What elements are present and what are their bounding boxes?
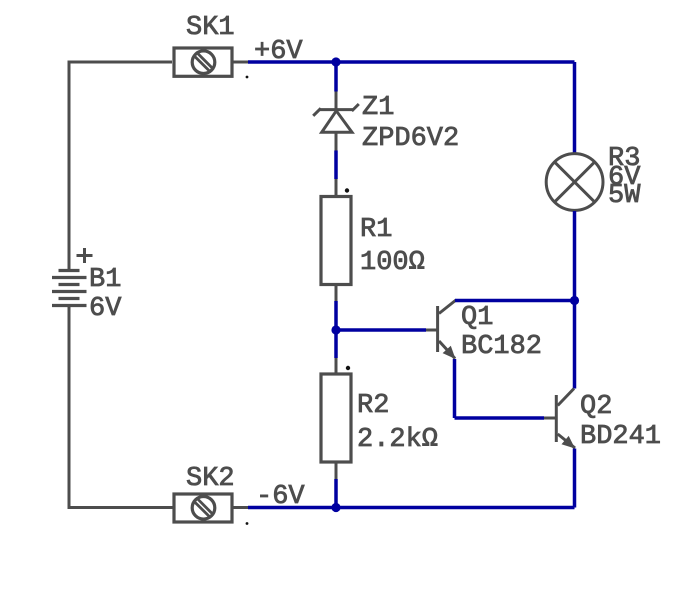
svg-text:-6V: -6V [256,482,305,512]
svg-text:SK2: SK2 [186,464,235,494]
svg-text:100Ω: 100Ω [360,248,425,278]
wire Q1 base (blue) [336,328,426,332]
wire zener to R1 (blue) [334,151,338,180]
svg-text:BC182: BC182 [461,332,542,362]
wire right rail top (blue) [573,62,577,153]
wire top rail (blue) [248,60,575,64]
wire bottom rail (blue) [248,506,575,510]
node junction center [331,325,340,334]
pin Q1 base stub (gray) [426,329,437,332]
svg-text:Q1: Q1 [461,303,493,333]
svg-text:ZPD6V2: ZPD6V2 [362,124,459,154]
svg-text:6V: 6V [89,294,122,324]
svg-text:BD241: BD241 [580,422,661,452]
wire Q1 emitter to Q2 base (blue) [455,416,545,420]
node junction right rail [570,296,579,305]
pin dot R1 [345,188,349,192]
pin R1 top (gray) [335,179,338,196]
wire left rail from SK1 to battery top (gray) [69,62,172,271]
pin R1 bottom (gray) [335,285,338,302]
svg-text:Q2: Q2 [580,392,612,422]
pin dot R2 [346,366,350,370]
pin dot SK2 [246,522,249,525]
arrow Q1 emitter [443,346,456,359]
wire Q2 emitter down (blue) [573,449,577,508]
wire center from top rail to zener (blue) [334,62,338,92]
pin stub SK1 right (gray) [233,61,248,64]
svg-text:B1: B1 [89,265,121,295]
pin zener top (gray) [335,92,338,110]
pin zener bottom (gray) [335,132,338,150]
pin R2 bottom (gray) [335,462,338,479]
transistor Q1 [438,300,456,359]
terminal SK2 [174,494,232,522]
arrow Q2 emitter [562,436,576,449]
lamp R3 [546,154,603,211]
zener diode Z1 [313,104,359,132]
terminal SK1 [174,48,232,76]
battery B1 [52,271,87,306]
svg-text:Z1: Z1 [362,93,394,123]
resistor R2 [321,374,351,462]
wire junction to Q2 collector (blue) [573,301,577,389]
wire Q1 emitter down (blue) [453,359,457,418]
node junction top (+6V net) [331,57,340,66]
svg-text:2.2kΩ: 2.2kΩ [357,425,438,455]
wire lamp bottom to junction (blue) [573,211,577,301]
wire R2 to bottom rail (blue) [334,479,338,508]
battery plus sign [77,248,93,263]
resistor R1 [321,197,351,285]
svg-text:SK1: SK1 [186,13,235,43]
wire node to R2 (blue) [334,330,338,358]
svg-text:R1: R1 [360,215,392,245]
wire Q1 collector to right rail (blue) [455,299,575,303]
pin stub SK2 right (gray) [233,506,248,509]
node junction bottom [331,503,340,512]
pin Q2 base stub (gray) [544,417,555,420]
svg-text:5W: 5W [608,181,641,211]
wire left rail from battery bottom to SK2 (gray) [69,306,173,508]
svg-text:R2: R2 [357,391,389,421]
transistor Q2 [556,389,575,449]
pin dot SK1 [246,76,249,79]
wire R1 to node (blue) [334,301,338,330]
pin R2 top (gray) [335,358,338,374]
